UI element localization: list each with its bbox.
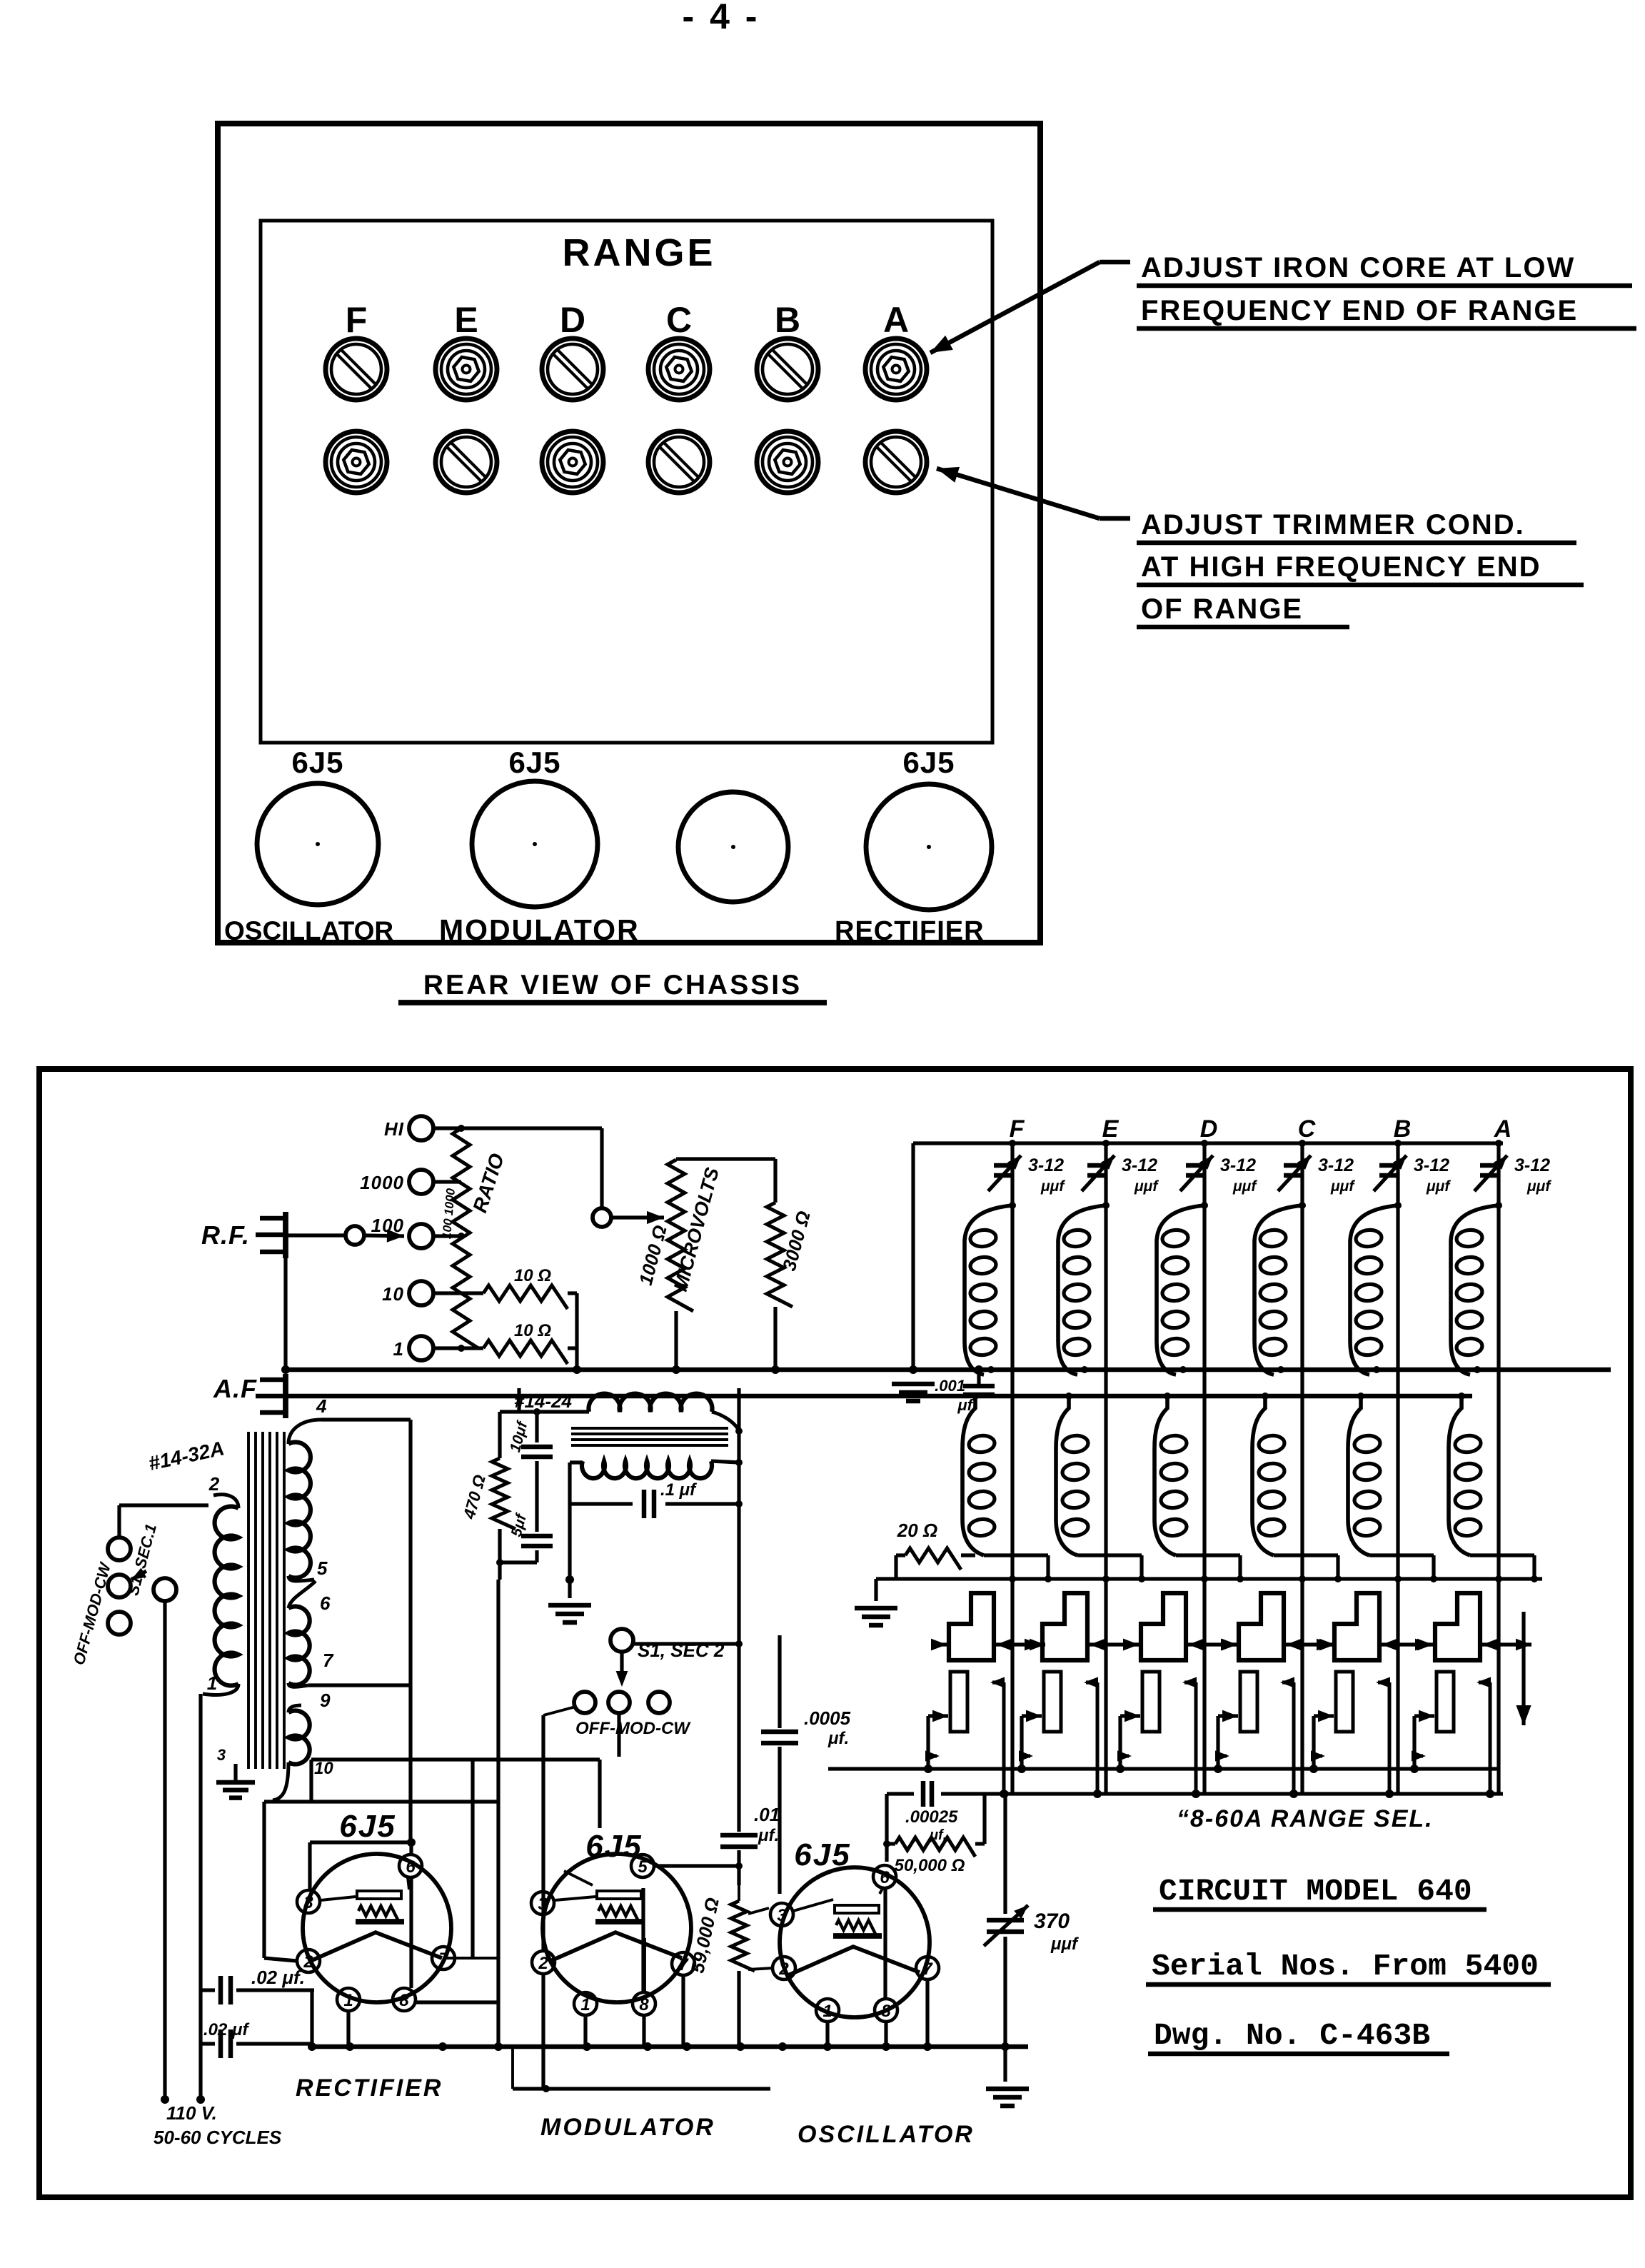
svg-text:RECTIFIER: RECTIFIER bbox=[296, 2074, 443, 2102]
svg-text:.00025: .00025 bbox=[905, 1807, 958, 1827]
svg-text:7: 7 bbox=[922, 1960, 933, 1979]
svg-text:μμf: μμf bbox=[1426, 1178, 1451, 1195]
svg-text:ADJUST TRIMMER COND.: ADJUST TRIMMER COND. bbox=[1141, 509, 1525, 541]
svg-text:MODULATOR: MODULATOR bbox=[540, 2114, 715, 2141]
svg-text:FREQUENCY END OF RANGE: FREQUENCY END OF RANGE bbox=[1141, 295, 1578, 326]
svg-text:.02 μf: .02 μf bbox=[203, 2020, 250, 2039]
svg-text:E: E bbox=[454, 300, 478, 340]
svg-text:μμf: μμf bbox=[1040, 1178, 1065, 1195]
svg-text:MODULATOR: MODULATOR bbox=[439, 913, 640, 946]
svg-text:8: 8 bbox=[639, 1995, 649, 2014]
svg-text:1: 1 bbox=[580, 1995, 590, 2014]
svg-text:OSCILLATOR: OSCILLATOR bbox=[224, 916, 393, 945]
svg-text:3-12: 3-12 bbox=[1122, 1155, 1157, 1175]
svg-text:3: 3 bbox=[217, 1746, 226, 1764]
svg-text:B: B bbox=[1394, 1115, 1412, 1143]
svg-text:2: 2 bbox=[208, 1473, 220, 1495]
svg-text:6J5: 6J5 bbox=[291, 746, 343, 779]
svg-text:6J5: 6J5 bbox=[794, 1837, 850, 1872]
svg-text:100 1000: 100 1000 bbox=[440, 1188, 458, 1240]
svg-text:F: F bbox=[1010, 1115, 1025, 1143]
svg-text:9: 9 bbox=[320, 1690, 331, 1711]
svg-text:3-12: 3-12 bbox=[1028, 1155, 1064, 1175]
svg-text:3: 3 bbox=[538, 1895, 548, 1914]
svg-text:C: C bbox=[1298, 1115, 1316, 1143]
svg-text:E: E bbox=[1102, 1115, 1120, 1143]
svg-text:470 Ω: 470 Ω bbox=[459, 1472, 489, 1521]
svg-text:CIRCUIT MODEL 640: CIRCUIT MODEL 640 bbox=[1159, 1874, 1472, 1909]
svg-text:μf.: μf. bbox=[758, 1826, 779, 1845]
svg-text:RANGE: RANGE bbox=[562, 231, 715, 274]
svg-text:HI: HI bbox=[384, 1118, 404, 1140]
svg-text:6: 6 bbox=[320, 1592, 331, 1614]
svg-text:1: 1 bbox=[822, 2002, 832, 2021]
svg-text:D: D bbox=[560, 300, 585, 340]
svg-text:OFF-MOD-CW: OFF-MOD-CW bbox=[70, 1560, 115, 1667]
svg-text:OF RANGE: OF RANGE bbox=[1141, 593, 1303, 625]
svg-text:7: 7 bbox=[323, 1650, 334, 1671]
svg-text:RATIO: RATIO bbox=[468, 1150, 508, 1215]
svg-text:.001: .001 bbox=[935, 1377, 965, 1395]
svg-text:6J5: 6J5 bbox=[339, 1809, 396, 1844]
svg-text:F: F bbox=[346, 300, 368, 340]
svg-text:110 V.: 110 V. bbox=[166, 2102, 217, 2124]
svg-text:μμf: μμf bbox=[1134, 1178, 1159, 1195]
svg-text:μμf: μμf bbox=[1232, 1178, 1257, 1195]
svg-text:C: C bbox=[666, 300, 692, 340]
svg-text:1: 1 bbox=[343, 1991, 353, 2010]
svg-text:MICROVOLTS: MICROVOLTS bbox=[670, 1165, 723, 1294]
svg-text:.01: .01 bbox=[754, 1804, 780, 1825]
svg-text:.1 μf: .1 μf bbox=[660, 1480, 697, 1500]
svg-text:2: 2 bbox=[778, 1960, 789, 1979]
svg-text:10 Ω: 10 Ω bbox=[514, 1266, 551, 1285]
svg-text:3-12: 3-12 bbox=[1514, 1155, 1550, 1175]
svg-text:μμf: μμf bbox=[1050, 1935, 1079, 1954]
svg-text:OSCILLATOR: OSCILLATOR bbox=[798, 2121, 975, 2148]
svg-text:Dwg. No. C-463B: Dwg. No. C-463B bbox=[1154, 2018, 1430, 2053]
svg-text:μμf: μμf bbox=[1330, 1178, 1355, 1195]
svg-text:3000 Ω: 3000 Ω bbox=[778, 1209, 815, 1273]
svg-text:50,000 Ω: 50,000 Ω bbox=[895, 1856, 965, 1875]
svg-text:μf.: μf. bbox=[827, 1729, 849, 1748]
svg-text:#14-24: #14-24 bbox=[514, 1390, 572, 1412]
svg-text:8: 8 bbox=[881, 2002, 891, 2021]
svg-text:6: 6 bbox=[880, 1868, 890, 1887]
svg-text:RECTIFIER: RECTIFIER bbox=[835, 916, 985, 946]
svg-text:D: D bbox=[1200, 1115, 1218, 1143]
svg-text:.0005: .0005 bbox=[804, 1707, 851, 1729]
svg-text:6: 6 bbox=[406, 1857, 416, 1877]
svg-text:“8-60A RANGE SEL.: “8-60A RANGE SEL. bbox=[1177, 1805, 1434, 1832]
svg-text:50-60 CYCLES: 50-60 CYCLES bbox=[154, 2127, 282, 2148]
svg-text:3: 3 bbox=[303, 1893, 313, 1912]
svg-text:#14-32A: #14-32A bbox=[146, 1437, 226, 1475]
svg-text:10: 10 bbox=[314, 1759, 333, 1778]
svg-text:2: 2 bbox=[538, 1954, 548, 1973]
svg-text:1: 1 bbox=[393, 1338, 404, 1360]
svg-text:Serial Nos. From 5400: Serial Nos. From 5400 bbox=[1152, 1949, 1539, 1984]
svg-text:R.F.: R.F. bbox=[201, 1220, 250, 1250]
svg-text:REAR VIEW OF CHASSIS: REAR VIEW OF CHASSIS bbox=[423, 970, 802, 1000]
svg-text:1: 1 bbox=[207, 1672, 217, 1694]
svg-text:ADJUST IRON CORE AT LOW: ADJUST IRON CORE AT LOW bbox=[1141, 252, 1575, 283]
svg-text:10 Ω: 10 Ω bbox=[514, 1321, 551, 1340]
svg-text:6J5: 6J5 bbox=[902, 746, 955, 779]
svg-text:6J5: 6J5 bbox=[508, 746, 560, 779]
svg-text:10: 10 bbox=[382, 1283, 404, 1305]
svg-text:3-12: 3-12 bbox=[1318, 1155, 1354, 1175]
svg-text:A: A bbox=[883, 300, 909, 340]
svg-text:- 4 -: - 4 - bbox=[683, 0, 760, 36]
svg-text:3-12: 3-12 bbox=[1220, 1155, 1256, 1175]
svg-text:.02 μf.: .02 μf. bbox=[251, 1967, 305, 1988]
svg-text:370: 370 bbox=[1034, 1910, 1070, 1933]
svg-text:3: 3 bbox=[777, 1906, 787, 1925]
svg-text:1000: 1000 bbox=[360, 1172, 404, 1193]
svg-text:A.F: A.F bbox=[213, 1374, 257, 1403]
svg-text:μμf: μμf bbox=[1526, 1178, 1551, 1195]
svg-text:B: B bbox=[775, 300, 800, 340]
svg-text:AT HIGH FREQUENCY END: AT HIGH FREQUENCY END bbox=[1141, 551, 1541, 583]
svg-text:3-12: 3-12 bbox=[1414, 1155, 1449, 1175]
svg-text:OFF-MOD-CW: OFF-MOD-CW bbox=[575, 1719, 691, 1738]
svg-text:5: 5 bbox=[317, 1557, 328, 1579]
svg-text:6J5: 6J5 bbox=[585, 1829, 642, 1864]
svg-text:4: 4 bbox=[316, 1395, 327, 1417]
svg-text:A: A bbox=[1494, 1115, 1512, 1143]
svg-text:8: 8 bbox=[399, 1991, 409, 2010]
svg-text:20 Ω: 20 Ω bbox=[897, 1520, 937, 1541]
